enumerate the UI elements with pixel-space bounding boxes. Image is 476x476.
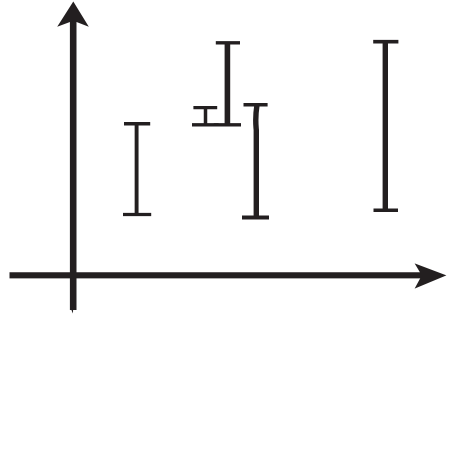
bar5 bottom cap [374, 208, 399, 212]
bar4 top cap [244, 103, 268, 107]
bar2 stem [204, 108, 208, 125]
bar5 top cap [373, 40, 398, 44]
x-axis arrowhead [415, 263, 447, 288]
y-axis [57, 2, 89, 314]
bar4 stem [256, 106, 257, 218]
bar5 stem [383, 43, 388, 210]
bar1 top cap [124, 122, 150, 126]
error bar 1 (leftmost) [123, 124, 151, 215]
wire y-axis stem [72, 16, 74, 314]
error bar 3 (tall, middle) [214, 43, 241, 125]
bar1 stem [135, 124, 139, 214]
bar3 bottom cap [214, 123, 241, 126]
bar1 bottom cap [123, 213, 151, 216]
x-axis [10, 263, 447, 288]
bar3 top cap [216, 41, 240, 44]
bar2 bottom cap [192, 123, 219, 126]
bar3 stem [225, 44, 231, 125]
error bar 5 (rightmost) [373, 42, 398, 211]
error bar 2 (small, middle-left) [192, 108, 219, 125]
error bar 4 (middle-right) [242, 105, 269, 218]
bar4 bottom cap [242, 216, 269, 220]
y-axis arrowhead [57, 2, 89, 27]
bar2 top cap [193, 106, 217, 109]
wire x-axis stem [10, 272, 429, 278]
